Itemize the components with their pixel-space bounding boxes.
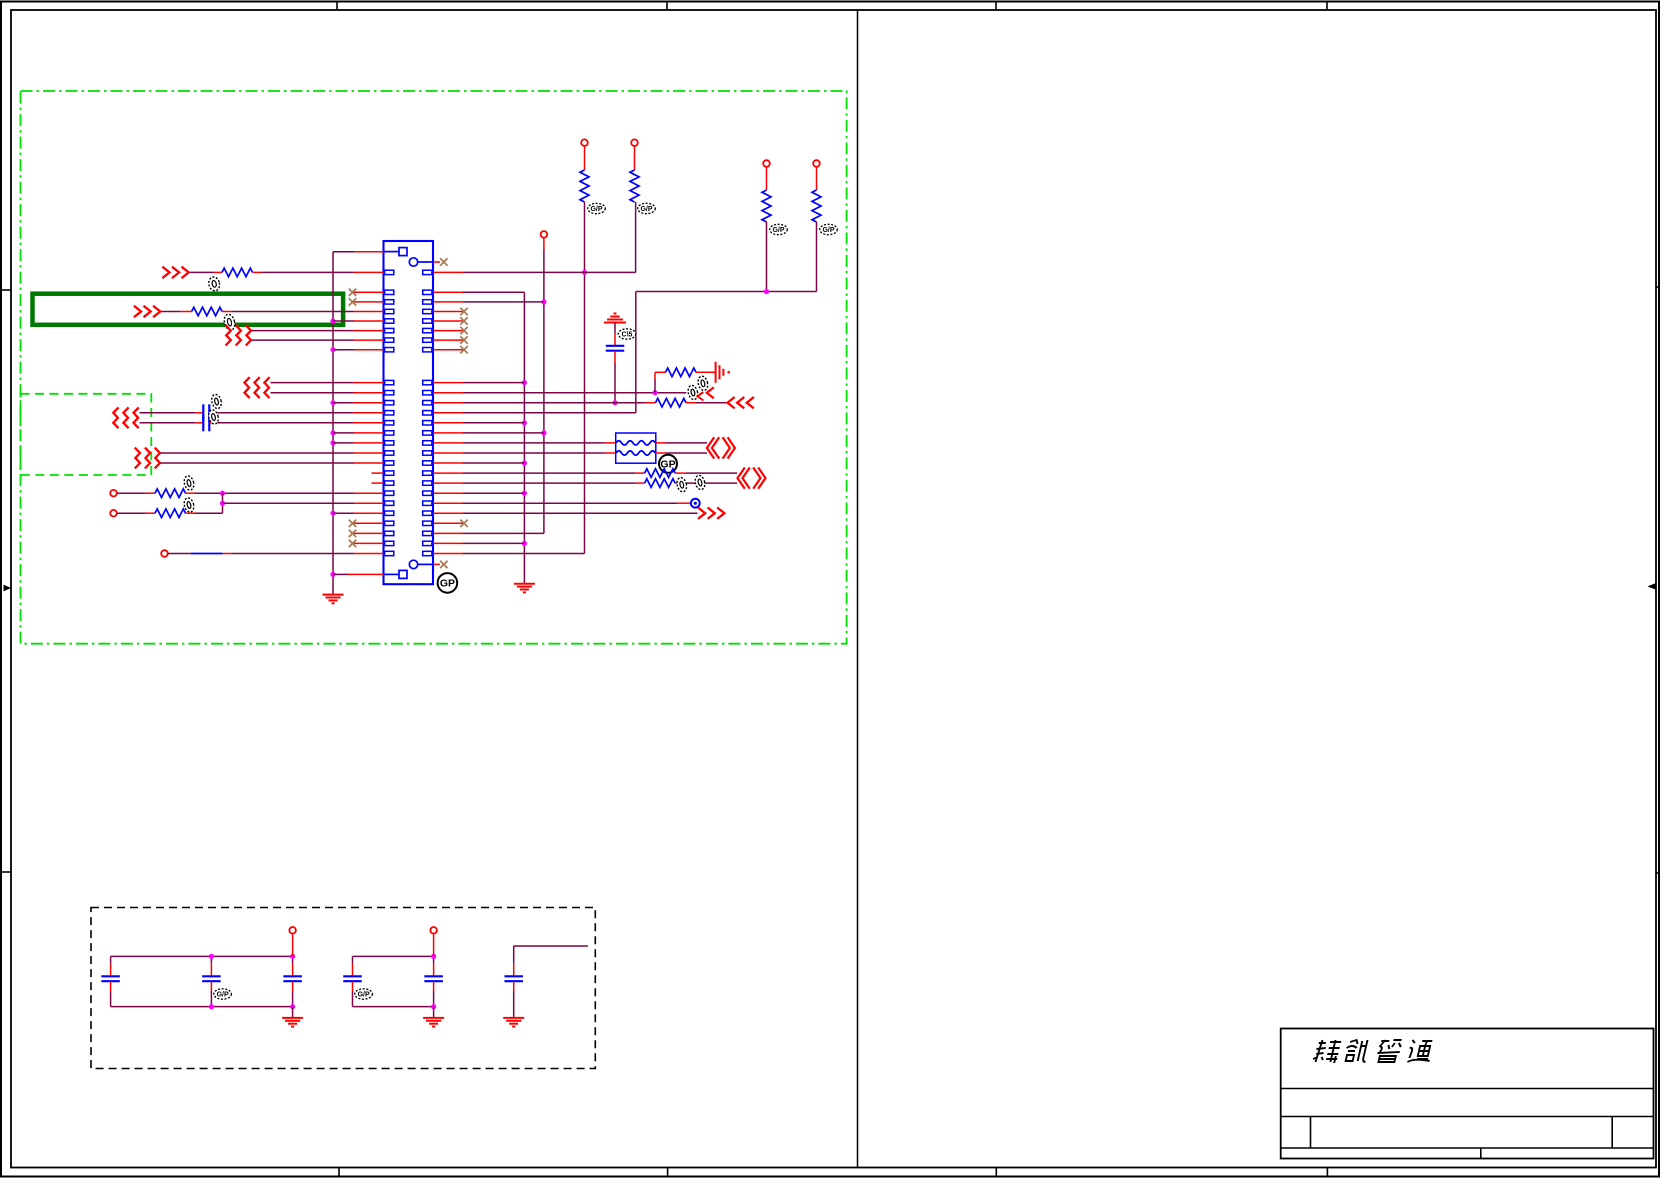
connector pin 1 square (top)	[399, 248, 407, 256]
label oval k1 b	[697, 375, 709, 391]
resistor k9 right lead	[675, 472, 686, 474]
right no-connect X marks	[460, 308, 467, 315]
capacitor CA1	[110, 956, 112, 963]
left zone tick 1	[1, 289, 11, 291]
wire k0 right	[463, 382, 524, 384]
dashed box around decoupling caps	[91, 908, 595, 1069]
wire k9 to off-page	[686, 472, 737, 474]
cap group B bottom rail	[353, 1006, 434, 1008]
wire k4 left	[140, 422, 196, 424]
off-page connector >>> (row k13 right)	[698, 508, 705, 519]
label oval r4 resistor	[223, 313, 237, 331]
wire r1 to pin	[262, 271, 354, 273]
resistor to ground (row k1 branch)	[666, 368, 697, 377]
junction A bottom CA3	[290, 1004, 295, 1009]
GP circle resistor pack	[659, 455, 677, 473]
resistor R r4 left lead	[180, 311, 192, 313]
V543 red lead	[543, 238, 545, 250]
vertical bus V543	[543, 250, 545, 533]
resistor k13 right lead	[186, 512, 196, 514]
bottom square pin lead (red)	[348, 573, 384, 575]
label oval G/P group A	[214, 989, 232, 999]
resistor k11 right lead	[186, 492, 196, 494]
wire k6 stub to V1	[333, 442, 354, 444]
resistor R pull-up C	[762, 190, 771, 222]
wire k7 to off-page	[666, 452, 708, 454]
wire r4 left segment	[161, 311, 180, 313]
capacitor CA3	[292, 956, 294, 963]
resistor R r4 right lead	[222, 311, 232, 313]
CC1 bottom lead	[513, 981, 515, 991]
label oval G/P group B	[355, 989, 373, 999]
junction pullup2	[764, 289, 769, 294]
cap group B top rail	[353, 955, 434, 957]
wire k7	[160, 452, 353, 454]
wire k5 right	[463, 432, 544, 434]
label oval k9/k10 b	[694, 474, 706, 490]
wire k13 a	[117, 512, 145, 514]
wire k16 right	[463, 542, 524, 544]
resistor k9	[645, 469, 676, 478]
connector bottom circle pin	[409, 560, 417, 568]
label oval k13 resistor	[183, 497, 195, 513]
wire k9 right	[463, 472, 635, 474]
top zone tick 3	[995, 2, 997, 11]
resistor R pull-up B	[630, 170, 639, 202]
resistor to ground right lead	[696, 371, 716, 373]
resistor k13 left lead	[145, 512, 155, 514]
cap group A top rail	[111, 955, 293, 957]
wire V614	[614, 363, 616, 403]
horizontal wire pull-up pair 2	[636, 291, 817, 293]
junction A bottom CA2	[209, 1004, 214, 1009]
wire k3 left	[140, 412, 196, 414]
wire k17 red segment	[223, 553, 232, 555]
title text stroke glyph 4 (Tong)	[1406, 1040, 1434, 1062]
wire k12 right	[463, 502, 677, 504]
wire bottom square to V1	[333, 573, 348, 575]
label oval k9/k10 a	[676, 477, 688, 493]
vertical wire V635 upper	[635, 202, 637, 272]
junction B top CB2	[431, 954, 436, 959]
title text stroke glyph 2 (Chuang)	[1343, 1040, 1370, 1062]
vertical sheet divider	[857, 10, 859, 1168]
resistor k11 left lead	[145, 492, 155, 494]
resistor pack RP1 box	[616, 433, 656, 463]
label oval r1 resistor	[207, 276, 221, 292]
riser group A	[292, 934, 294, 957]
label oval C5	[618, 329, 636, 339]
top square pin lead (red)	[355, 251, 384, 253]
wire V816 lower	[816, 222, 818, 292]
left no-connect leads	[354, 291, 384, 293]
wire k6 right	[463, 442, 605, 444]
top zone tick 1	[336, 2, 338, 11]
wire k5 stub to V1	[333, 432, 354, 434]
junction V524-k0	[522, 380, 527, 385]
ground bus V1 vertical wire	[332, 252, 334, 595]
C5 bottom lead	[614, 351, 616, 363]
R pull-up D top lead	[816, 167, 818, 190]
connector left pin brackets	[385, 270, 394, 274]
junction k11 x222	[220, 491, 225, 496]
left border arrow	[4, 585, 12, 592]
circled-dot terminal k12	[691, 499, 700, 508]
label oval G/P pull-up A	[588, 203, 606, 213]
junction V1-k5	[330, 430, 335, 435]
wire k13 right	[463, 512, 698, 514]
cap C k3 right lead	[209, 412, 218, 414]
top zone tick 4	[1326, 2, 1328, 11]
bidirectional off-page connector k9/k10	[738, 468, 745, 489]
resistor k10	[645, 479, 676, 488]
off-page connector <<< (row k2 right)	[728, 397, 735, 408]
junction V524-k11	[522, 491, 527, 496]
dark green highlight rectangle	[33, 294, 344, 325]
wire group C vertical	[513, 946, 515, 963]
capacitor CB1	[352, 956, 354, 963]
left pin leads (red)	[354, 271, 384, 273]
resistor pack RP1 element 1	[616, 441, 656, 445]
resistor pack right leads	[656, 442, 666, 444]
vertical tie x222	[222, 493, 224, 513]
resistor R r1 right lead	[253, 271, 263, 273]
resistor k2 left lead	[645, 402, 655, 404]
right zone tick 1	[1656, 286, 1659, 288]
label oval k1 a	[687, 384, 699, 400]
riser group B	[433, 934, 435, 957]
title text stroke glyph 3 (Zi)	[1375, 1040, 1402, 1062]
cap C k3 left lead	[195, 412, 203, 414]
bottom zone tick 2	[667, 1168, 669, 1177]
junction V584-r1	[582, 270, 587, 275]
side earth ground	[715, 362, 717, 383]
resistor k2 right lead	[686, 402, 696, 404]
off-page bus connector <<< (rows k3 k4)	[113, 407, 118, 428]
label oval cap k3	[210, 393, 222, 409]
wire r7	[251, 339, 353, 341]
right zone tick 2	[1656, 872, 1659, 874]
wire r5 stub to V1	[333, 320, 354, 322]
junction V543-r3	[541, 299, 546, 304]
title block outer rect	[1281, 1029, 1654, 1159]
bottom circle pin lead + X	[433, 563, 440, 565]
wire k4 right	[218, 422, 354, 424]
wire k6 to off-page	[666, 442, 708, 444]
top zone tick 2	[666, 2, 668, 11]
off-page connector >>> (row r4)	[134, 306, 141, 317]
ground symbol group A	[282, 1017, 303, 1019]
wire k4 right	[463, 422, 524, 424]
wire k11 b	[195, 492, 354, 494]
R pull-up C top lead	[766, 167, 768, 190]
title block divider 3	[1281, 1147, 1654, 1149]
connector J1 body	[384, 241, 434, 584]
ground stem group A	[292, 1007, 294, 1018]
hierarchical block boundary (large green dash-dot box)	[21, 91, 847, 644]
left zone tick 2	[1, 871, 11, 873]
label oval k11 resistor	[183, 475, 195, 491]
bottom zone tick 4	[1326, 1168, 1328, 1177]
junction V524-k16	[522, 541, 527, 546]
power circle group B	[430, 927, 437, 934]
wire k2 stub to V1	[333, 402, 354, 404]
input circle terminal row k11	[110, 490, 117, 497]
resistor pack left leads	[605, 442, 616, 444]
junction k1-x655	[652, 390, 657, 395]
resistor k10 left lead	[635, 482, 644, 484]
wire r1 left segment	[190, 271, 213, 273]
off-page bus connector >>> (rows k7 k8)	[135, 448, 140, 469]
svg-text:G/P: G/P	[217, 992, 229, 999]
label oval G/P pull-up B	[638, 203, 656, 213]
off-page bus connector <<< (rows k0 k1)	[245, 377, 250, 398]
wire r2 to V524	[463, 291, 524, 293]
resistor k13	[155, 509, 186, 518]
resistor R r1	[222, 268, 253, 277]
title block vline b	[1611, 1117, 1613, 1149]
resistor R pull-up D	[812, 190, 821, 222]
wire r3 to V543	[463, 301, 544, 303]
title text stroke glyph 1 (Wei)	[1312, 1040, 1341, 1063]
small chevron k1 a	[698, 392, 704, 400]
junction V1-k13	[330, 511, 335, 516]
wire k10 to off-page	[686, 482, 737, 484]
vertical wire V636 lower	[635, 292, 637, 413]
resistor to ground left lead	[655, 371, 666, 373]
junction V524-k4	[522, 420, 527, 425]
C5 top lead	[614, 323, 616, 334]
resistor pack RP1 element 2	[616, 451, 656, 455]
capacitor cap C k4	[202, 414, 204, 431]
wire k8 right	[463, 462, 524, 464]
wire k2 right	[463, 402, 645, 404]
resistor k10 right lead	[675, 482, 686, 484]
left pin leads short stubs k9 k10	[372, 472, 384, 474]
wire k11 a	[117, 492, 145, 494]
wire r6	[251, 330, 353, 332]
power circle terminal R pull-up C	[763, 160, 770, 167]
vertical wire V584	[584, 202, 586, 554]
junction V1-r5	[330, 318, 335, 323]
junction V1-r8	[330, 347, 335, 352]
right no-connect leads	[433, 311, 463, 313]
GP circle connector bottom	[438, 573, 458, 593]
small chevron k1 b	[707, 387, 714, 398]
wire k17 right to V584	[463, 553, 585, 555]
capacitor cap C k3	[202, 404, 204, 421]
vertical wire x655	[654, 379, 656, 393]
wire k2 to off-page	[696, 402, 727, 404]
junction A top CA3	[290, 954, 295, 959]
junction B bottom CB2	[431, 1004, 436, 1009]
wire k15 right	[463, 532, 544, 534]
input circle terminal row k17	[161, 550, 168, 557]
resistor R r1 left lead	[213, 271, 222, 273]
junction V614-k2	[612, 400, 617, 405]
junction V524-k8	[522, 460, 527, 465]
ground stem group B	[433, 1007, 435, 1018]
ground symbol V524	[514, 583, 535, 585]
title block divider 2	[1281, 1116, 1654, 1118]
off-page connector >>> (row r1)	[162, 267, 169, 278]
svg-text:G/P: G/P	[358, 992, 370, 999]
resistor R pull-up A	[580, 170, 589, 202]
label oval cap k4	[207, 409, 219, 425]
svg-text:G/P: G/P	[772, 227, 784, 234]
svg-text:C\5: C\5	[622, 332, 633, 339]
wire k17 b	[232, 553, 354, 555]
title block vline c	[1480, 1148, 1482, 1159]
right pin leads (red)	[433, 271, 463, 273]
wire k1 right	[463, 392, 686, 394]
junction k12 x222	[220, 501, 225, 506]
wire k17 blue segment	[191, 553, 223, 555]
R pull-up A top lead	[584, 146, 586, 170]
capacitor CC1	[504, 975, 523, 977]
wire k17 a	[168, 553, 191, 555]
wire k13 b	[195, 512, 223, 514]
connector top circle pin	[409, 258, 417, 266]
title block vline a	[1310, 1117, 1312, 1149]
wire k7 right	[463, 452, 605, 454]
svg-text:G/P: G/P	[640, 206, 652, 213]
capacitor CB2	[433, 956, 435, 963]
junction V1-k6	[330, 440, 335, 445]
wire k3 right	[463, 412, 636, 414]
inverted earth ground above C5	[604, 322, 626, 324]
junction A top CA2	[209, 954, 214, 959]
wire k12	[223, 502, 354, 504]
resistor R r4	[192, 307, 223, 316]
wire r4 to pin	[232, 311, 354, 313]
vertical bus V524	[523, 292, 525, 583]
wire k1	[271, 392, 354, 394]
svg-text:GP: GP	[440, 578, 455, 590]
label oval G/P pull-up C	[770, 224, 788, 234]
title block divider 1	[1281, 1088, 1654, 1090]
wire k0	[271, 382, 354, 384]
connector right pin brackets	[423, 270, 432, 274]
left no-connect X marks	[349, 289, 356, 296]
wire V766 lower	[766, 222, 768, 292]
ground symbol at V1 bottom	[323, 594, 344, 596]
capacitor CA2	[210, 956, 212, 963]
resistor k11	[155, 489, 186, 498]
bottom zone tick 1	[338, 1168, 340, 1177]
power circle terminal V543	[541, 231, 548, 238]
cap C k4 right lead	[209, 422, 218, 424]
resistor k9 left lead	[635, 472, 644, 474]
wire k8	[160, 462, 353, 464]
wire top square to V1	[333, 251, 355, 253]
junction V1-k2	[330, 400, 335, 405]
small green dash-dot box	[21, 394, 152, 475]
svg-text:G/P: G/P	[590, 206, 602, 213]
power circle terminal R pull-up A	[581, 139, 588, 146]
input circle terminal row k13	[110, 510, 117, 517]
connector bottom square pin	[399, 570, 407, 578]
bidirectional off-page connector k6/k7	[707, 437, 714, 458]
wire k11 right	[463, 492, 524, 494]
ground symbol group C	[503, 1017, 524, 1019]
junction V543-k5	[541, 430, 546, 435]
resistor k2	[656, 398, 687, 407]
wire k13 c	[333, 512, 354, 514]
wire r8 stub to V1	[333, 349, 354, 351]
wire k3 right	[218, 412, 354, 414]
cap group A bottom rail	[111, 1006, 293, 1008]
wire group C horizontal	[514, 945, 588, 947]
bottom zone tick 3	[995, 1168, 997, 1177]
off-page bus connector >>> (rows r6 r7)	[226, 325, 231, 345]
wire r1 right	[463, 271, 636, 273]
power circle terminal R pull-up B	[631, 139, 638, 146]
wire k10 right	[463, 482, 635, 484]
top circle pin lead + X	[433, 261, 440, 263]
ground symbol group B	[423, 1017, 444, 1019]
k12 terminal lead	[677, 502, 690, 504]
R pull-up B top lead	[634, 146, 636, 170]
right border arrow	[1648, 583, 1657, 590]
label oval G/P pull-up D	[820, 224, 838, 234]
junction V1-bottom-square	[330, 572, 335, 577]
cap C k4 left lead	[195, 422, 203, 424]
capacitor C5	[606, 345, 625, 347]
power circle terminal R pull-up D	[813, 160, 820, 167]
power circle group A	[289, 927, 296, 934]
svg-text:G/P: G/P	[822, 227, 834, 234]
